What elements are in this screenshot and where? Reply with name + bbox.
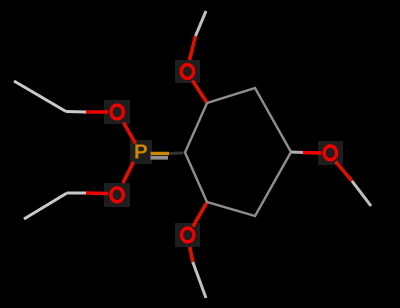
- atom O2: [111, 188, 123, 202]
- jpeg halo blocks around glyphs: [104, 60, 343, 247]
- bond CH2-O2 grey half: [67, 192, 86, 195]
- bond O(top)-CH3 red part: [190, 36, 196, 60]
- bond P-C1 dim half: [169, 152, 183, 156]
- bond O(top)-CH3 grey tip: [196, 11, 207, 36]
- bond O1-P red: [124, 123, 136, 144]
- bond O(right)-CH3 red part: [336, 162, 353, 182]
- bond CH3-CH2 upper ethyl: [14, 81, 66, 112]
- bond CH2-O1 red half: [86, 110, 108, 114]
- bond O(bottom)-CH3 grey tip: [193, 262, 206, 298]
- bond P-O2 red: [123, 162, 134, 183]
- bond C6-O(bottom) red: [193, 203, 207, 227]
- bond C2-O(top) red: [193, 81, 207, 103]
- ring bond C5-C6: [207, 202, 255, 216]
- ring bond C6-C1: [185, 153, 207, 203]
- jpeg grey bar under P-C1 bond: [151, 156, 169, 160]
- atom O bottom methoxy: [182, 228, 194, 242]
- bond P-C1 orange half: [151, 152, 170, 155]
- bond C4-O(right) grey half: [291, 151, 303, 155]
- bond CH2-O2 red half: [86, 191, 108, 195]
- bond O(bottom)-CH3 red part: [190, 247, 193, 262]
- atom O1: [111, 105, 123, 119]
- svg-text:P: P: [134, 140, 148, 163]
- bond CH3-CH2 lower ethyl: [24, 193, 67, 219]
- atom O right methoxy: [324, 146, 336, 160]
- ring bond C3-C4: [255, 88, 291, 152]
- ring bond C2-C3: [207, 88, 255, 103]
- atom O top methoxy: [181, 65, 193, 79]
- ring bond C4-C5: [255, 152, 291, 216]
- bond O(right)-CH3 grey tip: [352, 181, 371, 206]
- bond C4-O(right) red half: [303, 151, 322, 155]
- ring bond C1-C2: [185, 103, 207, 153]
- bond CH2-O1 grey half: [66, 110, 86, 114]
